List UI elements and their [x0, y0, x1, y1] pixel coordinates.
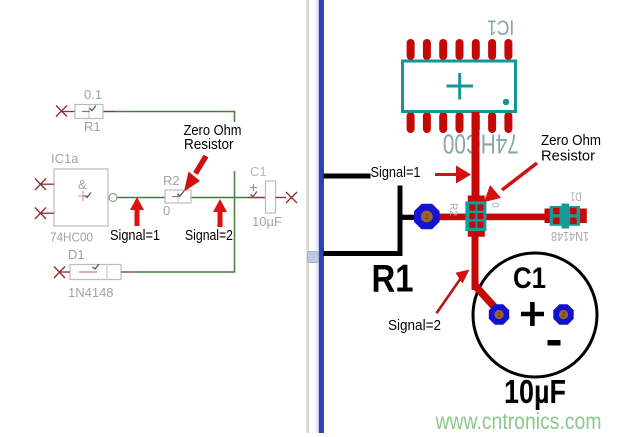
svg-text:1N4148: 1N4148	[68, 285, 114, 300]
svg-text:0: 0	[163, 203, 170, 218]
red arrow signal2 right	[437, 270, 470, 314]
svg-text:Signal=2: Signal=2	[388, 317, 441, 334]
svg-text:R2: R2	[163, 173, 180, 188]
svg-text:10µF: 10µF	[504, 373, 566, 410]
svg-text:74HC00: 74HC00	[443, 129, 519, 160]
pin R1 right	[103, 111, 115, 113]
svg-text:74HC00: 74HC00	[50, 230, 93, 245]
svg-text:2: 2	[562, 312, 566, 319]
black wire vertical	[398, 186, 403, 257]
IC1 plus mark	[447, 73, 474, 100]
svg-text:10µF: 10µF	[252, 214, 282, 229]
trace diagonal to pad1	[475, 285, 500, 312]
svg-text:C1: C1	[250, 164, 267, 179]
pad 2	[553, 304, 573, 324]
svg-text:Resistor: Resistor	[541, 148, 595, 165]
svg-text:C1: C1	[513, 262, 546, 295]
svg-text:Zero Ohm: Zero Ohm	[541, 132, 601, 149]
R2 footprint	[465, 196, 486, 237]
wire R1 output to vertical net	[115, 112, 235, 123]
black wire top	[324, 174, 371, 179]
svg-text:1N4148: 1N4148	[551, 229, 589, 244]
black stub to via	[400, 215, 415, 220]
svg-text:Resistor: Resistor	[184, 136, 234, 153]
capacitor C1 circle	[473, 253, 597, 377]
svg-text:R1: R1	[84, 119, 101, 134]
IC1 footprint pads top	[407, 39, 513, 60]
pad 1	[489, 304, 509, 324]
gate IC1a (74HC00)	[35, 151, 117, 245]
D1 footprint	[545, 204, 587, 229]
diode D1	[54, 247, 135, 300]
IC1 footprint pads bottom	[407, 112, 513, 133]
red arrow zero-ohm right	[484, 163, 537, 202]
svg-text:D1: D1	[570, 190, 581, 204]
wire gate output through R2 to C1	[117, 197, 248, 199]
left pane border line	[306, 0, 309, 433]
svg-text:IC1: IC1	[487, 16, 514, 39]
resistor R2 (zero ohm)	[163, 173, 191, 218]
IC1 dot	[503, 99, 509, 105]
pin C1 left	[248, 197, 266, 199]
svg-text:R1: R1	[372, 258, 414, 301]
splitter thumb	[308, 252, 319, 263]
splitter bar	[316, 0, 319, 433]
via pad	[414, 204, 440, 230]
svg-text:0: 0	[489, 202, 500, 208]
trace horizontal via-R2-D1	[432, 214, 548, 221]
svg-text:1: 1	[425, 214, 429, 221]
svg-text:D1: D1	[68, 247, 85, 262]
svg-text:Signal=1: Signal=1	[371, 164, 421, 181]
plus mark	[521, 302, 544, 326]
black wire bottom	[324, 251, 403, 256]
resistor R1	[56, 87, 103, 134]
IC1 body outline	[403, 61, 516, 112]
red arrow signal1 right	[435, 166, 471, 184]
red arrow signal1 left	[130, 197, 144, 226]
svg-text:1: 1	[497, 312, 501, 319]
red arrow zero-ohm left	[184, 156, 206, 192]
trace vertical R2 to C1 bend	[472, 234, 479, 290]
svg-text:Signal=2: Signal=2	[185, 227, 233, 244]
svg-text:0.1: 0.1	[84, 87, 102, 102]
svg-text:R2: R2	[447, 203, 459, 216]
svg-text:Signal=1: Signal=1	[110, 227, 160, 244]
minus mark	[548, 340, 561, 346]
trace vertical IC to R2	[472, 112, 480, 198]
svg-text:www.cntronics.com: www.cntronics.com	[435, 408, 602, 434]
svg-text:&: &	[78, 177, 87, 192]
capacitor C1 schematic	[250, 164, 297, 229]
red arrow signal2 left	[213, 199, 227, 227]
svg-text:IC1a: IC1a	[51, 151, 79, 166]
wire vertical net down to D1	[135, 171, 235, 272]
